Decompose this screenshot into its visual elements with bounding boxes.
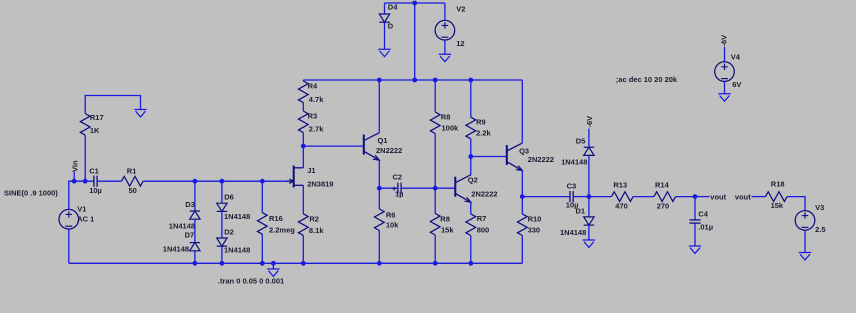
resistor R13 <box>612 180 634 210</box>
transistor Q2 <box>455 175 497 202</box>
resistor R17 <box>80 113 103 135</box>
svg-text:R1: R1 <box>127 167 137 176</box>
svg-text:D7: D7 <box>185 231 195 240</box>
wire node A to Q1 base <box>303 145 364 147</box>
svg-text:vout: vout <box>710 192 726 201</box>
resistor R1 <box>122 167 144 195</box>
svg-text:D5: D5 <box>576 136 586 145</box>
svg-text:10µ: 10µ <box>89 186 102 195</box>
wire Q2 collector to node B <box>470 157 472 175</box>
svg-text:R2: R2 <box>309 214 319 223</box>
junction bottom ground <box>271 261 276 266</box>
svg-text:12: 12 <box>456 39 464 48</box>
diode D1 <box>560 207 594 237</box>
wire D6 to D2 <box>221 211 223 238</box>
wire V2 to ground <box>444 40 446 54</box>
resistor R6 <box>374 209 399 231</box>
junction bottom R7 <box>468 261 473 266</box>
wire V3 to ground <box>804 230 806 252</box>
transistor Q3 <box>507 143 554 170</box>
svg-text:2.2k: 2.2k <box>476 128 491 137</box>
jfet J1 <box>287 166 334 189</box>
wire D2 to bottom rail <box>221 246 223 263</box>
svg-text:Q1: Q1 <box>378 136 388 145</box>
voltage source V2 <box>435 4 465 48</box>
svg-text:.01µ: .01µ <box>698 223 713 232</box>
ground (D4) <box>378 49 390 56</box>
wire R4 to R3 <box>302 103 304 111</box>
wire Q1 emitter down <box>378 160 380 188</box>
wire Q3 collector to rail <box>521 80 523 143</box>
node -6V label (D5) <box>585 116 594 128</box>
ground (V4) <box>718 94 730 101</box>
junction Q3 emitter output tap <box>520 194 525 199</box>
wire R10 to bottom rail <box>521 236 523 264</box>
svg-text:4.7k: 4.7k <box>309 95 324 104</box>
voltage source V1 <box>59 205 94 230</box>
svg-text:2.7k: 2.7k <box>309 124 324 133</box>
wire R8b to bottom rail <box>434 235 436 263</box>
resistor R16 <box>257 213 295 235</box>
svg-text:1N4148: 1N4148 <box>163 245 189 254</box>
wire node to R6 <box>378 188 380 209</box>
svg-text:C2: C2 <box>393 172 403 181</box>
voltage source V4 <box>715 52 742 89</box>
wire node to Q2 base <box>435 187 455 189</box>
wire node to D1 <box>588 197 590 217</box>
wire vout node to label <box>695 196 710 198</box>
svg-text:D1: D1 <box>576 207 586 216</box>
junction bottom R16 <box>260 261 265 266</box>
wire R14 to vout node <box>676 196 695 198</box>
svg-text:10k: 10k <box>386 220 399 229</box>
svg-text:Vin: Vin <box>70 160 79 172</box>
svg-text:D2: D2 <box>224 227 234 236</box>
wire R13 to R14 <box>633 196 654 198</box>
junction R8 top on rail <box>433 78 438 83</box>
wire C3 to D-node <box>573 196 589 198</box>
svg-text:R18: R18 <box>771 180 785 189</box>
junction bottom D2 <box>220 261 225 266</box>
wire rail to R8 <box>434 80 436 112</box>
wire Q1 emitter node to C2 <box>379 187 398 189</box>
svg-text:R17: R17 <box>90 113 104 122</box>
resistor R4 <box>298 81 324 104</box>
svg-text:R16: R16 <box>269 214 283 223</box>
wire D7 to bottom rail <box>194 251 196 263</box>
wire V1 minus to bottom rail <box>68 229 70 263</box>
resistor R2 <box>298 214 324 236</box>
wire Q2 base node to R8b <box>434 188 436 213</box>
svg-text:1N4148: 1N4148 <box>224 212 250 221</box>
ground (V3) <box>799 253 811 260</box>
junction V2 riser on rail <box>412 78 417 83</box>
svg-text:2N2222: 2N2222 <box>471 189 497 198</box>
capacitor C3 <box>566 182 579 210</box>
wire top mini rail <box>385 2 445 4</box>
svg-text:6V: 6V <box>732 80 741 89</box>
junction bottom R2 <box>301 261 306 266</box>
node Vin label <box>70 160 79 181</box>
resistor R14 <box>654 180 676 210</box>
junction bottom D7 <box>193 261 198 266</box>
wire D1 to ground <box>588 225 590 240</box>
wire Q3 emitter down <box>521 171 523 214</box>
wire -6V label to V4 <box>724 47 726 62</box>
svg-text:800: 800 <box>477 225 490 234</box>
junction top mini rail <box>412 1 417 6</box>
diode D4 <box>379 2 398 30</box>
svg-text:J1: J1 <box>307 166 315 175</box>
resistor R8 (100k) <box>430 112 459 134</box>
junction R17 branch <box>83 179 88 184</box>
ground (V2) <box>439 54 451 61</box>
svg-text:R7: R7 <box>477 214 487 223</box>
diode D7 <box>163 231 200 254</box>
ground (C4) <box>689 246 701 253</box>
svg-text:R6: R6 <box>386 210 396 219</box>
svg-text:-6V: -6V <box>720 35 729 47</box>
wire R16 to bottom rail <box>261 234 263 263</box>
junction bottom R8 <box>433 261 438 266</box>
svg-text:R14: R14 <box>655 180 670 189</box>
svg-text:1µ: 1µ <box>395 189 404 198</box>
svg-text:Q2: Q2 <box>468 175 478 184</box>
junction R16 top <box>260 179 265 184</box>
diode D2 <box>217 227 251 254</box>
svg-text:1N4148: 1N4148 <box>169 221 195 230</box>
capacitor C4 <box>689 209 713 231</box>
wire C2 to Q2 base node <box>401 187 435 189</box>
svg-text:SINE(0 .9 1000): SINE(0 .9 1000) <box>4 189 58 198</box>
svg-text:AC 1: AC 1 <box>77 215 94 224</box>
junction D6 branch top <box>220 179 225 184</box>
wire Q1 collector to rail <box>378 80 380 133</box>
svg-text:-6V: -6V <box>585 116 594 128</box>
wire R7 to bottom rail <box>470 236 472 264</box>
wire bottom rail <box>69 262 523 264</box>
wire top to D6 <box>221 181 223 203</box>
svg-text:R10: R10 <box>528 215 542 224</box>
capacitor C2 <box>392 172 403 198</box>
diode D5 <box>561 136 594 166</box>
svg-text:R4: R4 <box>308 81 318 90</box>
ground (main) <box>267 269 279 276</box>
wire node to R13 <box>589 196 612 198</box>
svg-text:50: 50 <box>129 186 137 195</box>
wire R1 to J1 gate <box>143 180 288 182</box>
wire vout node to C4 <box>694 197 696 220</box>
diode D6 <box>217 193 251 221</box>
wire R9 to node B <box>470 139 472 157</box>
ground (R17 branch) <box>134 110 146 117</box>
junction bottom R6 <box>377 261 382 266</box>
node vout label (load) <box>735 192 751 201</box>
transistor Q1 <box>364 133 402 160</box>
svg-text:C1: C1 <box>89 167 99 176</box>
junction diode clamp node <box>587 194 592 199</box>
wire top to R16 <box>261 181 263 212</box>
svg-text:R13: R13 <box>613 180 627 189</box>
svg-text:R3: R3 <box>308 111 318 120</box>
wire mini rail to D4 <box>384 3 386 14</box>
svg-text:470: 470 <box>615 202 628 211</box>
svg-text:D6: D6 <box>224 193 234 202</box>
junction R9 top on rail <box>468 78 473 83</box>
svg-text:;ac dec 10 20 20k: ;ac dec 10 20 20k <box>616 75 678 84</box>
resistor R9 <box>466 117 492 139</box>
wire D5 to -6V label <box>588 129 590 148</box>
wire mini rail riser <box>414 3 416 80</box>
svg-text:330: 330 <box>528 225 541 234</box>
svg-text:Q3: Q3 <box>519 146 529 155</box>
svg-text:1N4148: 1N4148 <box>560 228 586 237</box>
node vout label <box>710 192 726 201</box>
svg-text:D3: D3 <box>185 200 195 209</box>
wire R18 to V3 <box>787 197 805 211</box>
wire rail to R4 <box>302 80 304 81</box>
svg-text:8.1k: 8.1k <box>309 226 324 235</box>
svg-text:.tran 0 0.05 0 0.001: .tran 0 0.05 0 0.001 <box>218 276 284 285</box>
resistor R8 (15k) <box>430 213 454 235</box>
svg-text:1N4148: 1N4148 <box>561 158 587 167</box>
wire output tap to C3 <box>522 196 570 198</box>
svg-text:2N2222: 2N2222 <box>528 155 554 164</box>
wire rail to R9 <box>470 80 472 117</box>
svg-text:15k: 15k <box>771 201 784 210</box>
junction Q1 emitter node <box>377 186 382 191</box>
junction node A (J1 drain / Q1 base) <box>301 144 306 149</box>
diode D3 <box>169 200 200 230</box>
svg-text:V4: V4 <box>731 52 741 61</box>
wire C1 to R1 <box>97 180 121 182</box>
wire Q2 emitter to R7 <box>470 202 472 214</box>
wire R3 to node A <box>302 133 304 147</box>
wire node to D5 <box>588 155 590 196</box>
node -6V label (V4) <box>720 35 729 47</box>
resistor R18 <box>766 180 788 210</box>
junction D3 branch top <box>193 179 198 184</box>
capacitor C1 <box>89 167 102 195</box>
junction node B (Q2 collector / Q3 base) <box>468 154 473 159</box>
svg-text:100k: 100k <box>442 123 460 132</box>
wire D3 to D7 <box>194 219 196 242</box>
svg-text:R8: R8 <box>440 215 450 224</box>
wire top to D3 <box>194 181 196 211</box>
wire node B to Q3 base <box>471 156 507 158</box>
wire top rail <box>303 79 522 81</box>
svg-text:V3: V3 <box>815 203 824 212</box>
junction Q2 base node <box>433 186 438 191</box>
wire J1 drain riser <box>302 146 304 168</box>
resistor R3 <box>298 111 324 133</box>
wire mini rail to V2 <box>444 3 446 21</box>
svg-text:1N4148: 1N4148 <box>224 246 250 255</box>
wire R8 to Q2 base node <box>434 134 436 189</box>
wire vout label to R18 <box>752 196 766 198</box>
svg-text:D4: D4 <box>388 2 398 11</box>
svg-text:C3: C3 <box>567 182 577 191</box>
wire D4 to ground <box>384 22 386 49</box>
resistor R7 <box>466 214 489 236</box>
wire R17 bottom lead <box>84 135 86 181</box>
svg-text:2N2222: 2N2222 <box>376 146 402 155</box>
svg-text:C4: C4 <box>698 209 708 218</box>
svg-text:D: D <box>388 22 394 31</box>
svg-text:V1: V1 <box>77 205 86 214</box>
junction Q1 collector on rail <box>377 78 382 83</box>
svg-text:270: 270 <box>657 202 670 211</box>
svg-text:2.5: 2.5 <box>815 225 825 234</box>
wire C4 to ground <box>694 223 696 246</box>
svg-text:V2: V2 <box>456 4 465 13</box>
svg-text:2.2meg: 2.2meg <box>269 225 295 234</box>
junction Vin tick <box>72 179 77 184</box>
svg-text:vout: vout <box>735 192 751 201</box>
svg-text:R9: R9 <box>476 118 486 127</box>
wire V4 to ground <box>724 81 726 94</box>
voltage source V3 <box>795 203 825 234</box>
svg-text:1K: 1K <box>90 126 100 135</box>
wire J1 source riser <box>302 185 304 214</box>
wire ground stem (bottom rail) <box>272 263 274 269</box>
resistor R10 <box>517 214 541 236</box>
svg-text:2N3819: 2N3819 <box>307 179 333 188</box>
wire R2 to bottom rail <box>302 235 304 263</box>
junction vout node <box>693 194 698 199</box>
wire R17 top to ground <box>85 96 140 114</box>
wire R6 to bottom rail <box>378 231 380 264</box>
svg-text:R8: R8 <box>441 113 451 122</box>
svg-text:15k: 15k <box>441 226 454 235</box>
ground (D1) <box>583 240 595 247</box>
wire V1 plus to input node <box>69 181 94 209</box>
